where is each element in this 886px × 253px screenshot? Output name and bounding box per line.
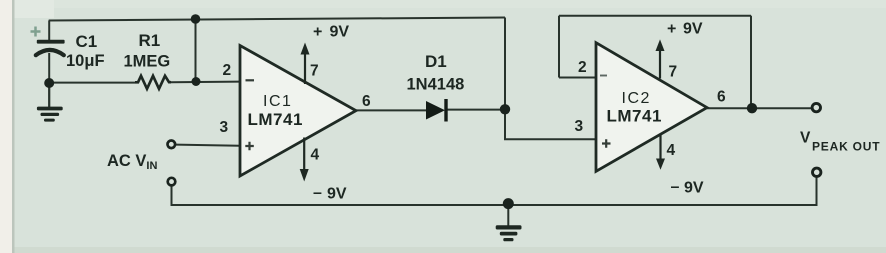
svg-text:PEAK OUT: PEAK OUT [812, 140, 880, 154]
svg-text:1MEG: 1MEG [124, 53, 171, 71]
svg-text:R1: R1 [139, 31, 161, 50]
svg-text:IC1: IC1 [263, 93, 292, 110]
svg-text:3: 3 [220, 119, 229, 136]
svg-text:2: 2 [578, 59, 587, 76]
svg-text:LM741: LM741 [607, 107, 662, 126]
svg-text:7: 7 [669, 64, 678, 81]
svg-text:–: – [313, 185, 322, 202]
svg-text:9V: 9V [683, 21, 703, 38]
svg-text:10μF: 10μF [66, 52, 105, 70]
svg-text:4: 4 [667, 142, 676, 159]
svg-text:6: 6 [717, 89, 726, 106]
svg-text:9V: 9V [684, 180, 704, 197]
svg-text:9V: 9V [330, 24, 350, 41]
svg-text:2: 2 [223, 62, 232, 79]
svg-text:V: V [800, 130, 811, 147]
svg-text:7: 7 [310, 63, 319, 80]
svg-text:+: + [667, 21, 676, 38]
svg-text:D1: D1 [425, 52, 447, 71]
svg-text:6: 6 [362, 93, 371, 110]
svg-text:–: – [671, 179, 680, 196]
svg-text:1N4148: 1N4148 [407, 76, 465, 94]
svg-text:C1: C1 [76, 32, 98, 51]
svg-text:LM741: LM741 [248, 110, 303, 129]
svg-text:+: + [313, 24, 322, 41]
svg-text:4: 4 [311, 147, 320, 164]
svg-text:IC2: IC2 [622, 90, 651, 107]
svg-text:3: 3 [575, 118, 584, 135]
svg-text:9V: 9V [327, 186, 347, 203]
